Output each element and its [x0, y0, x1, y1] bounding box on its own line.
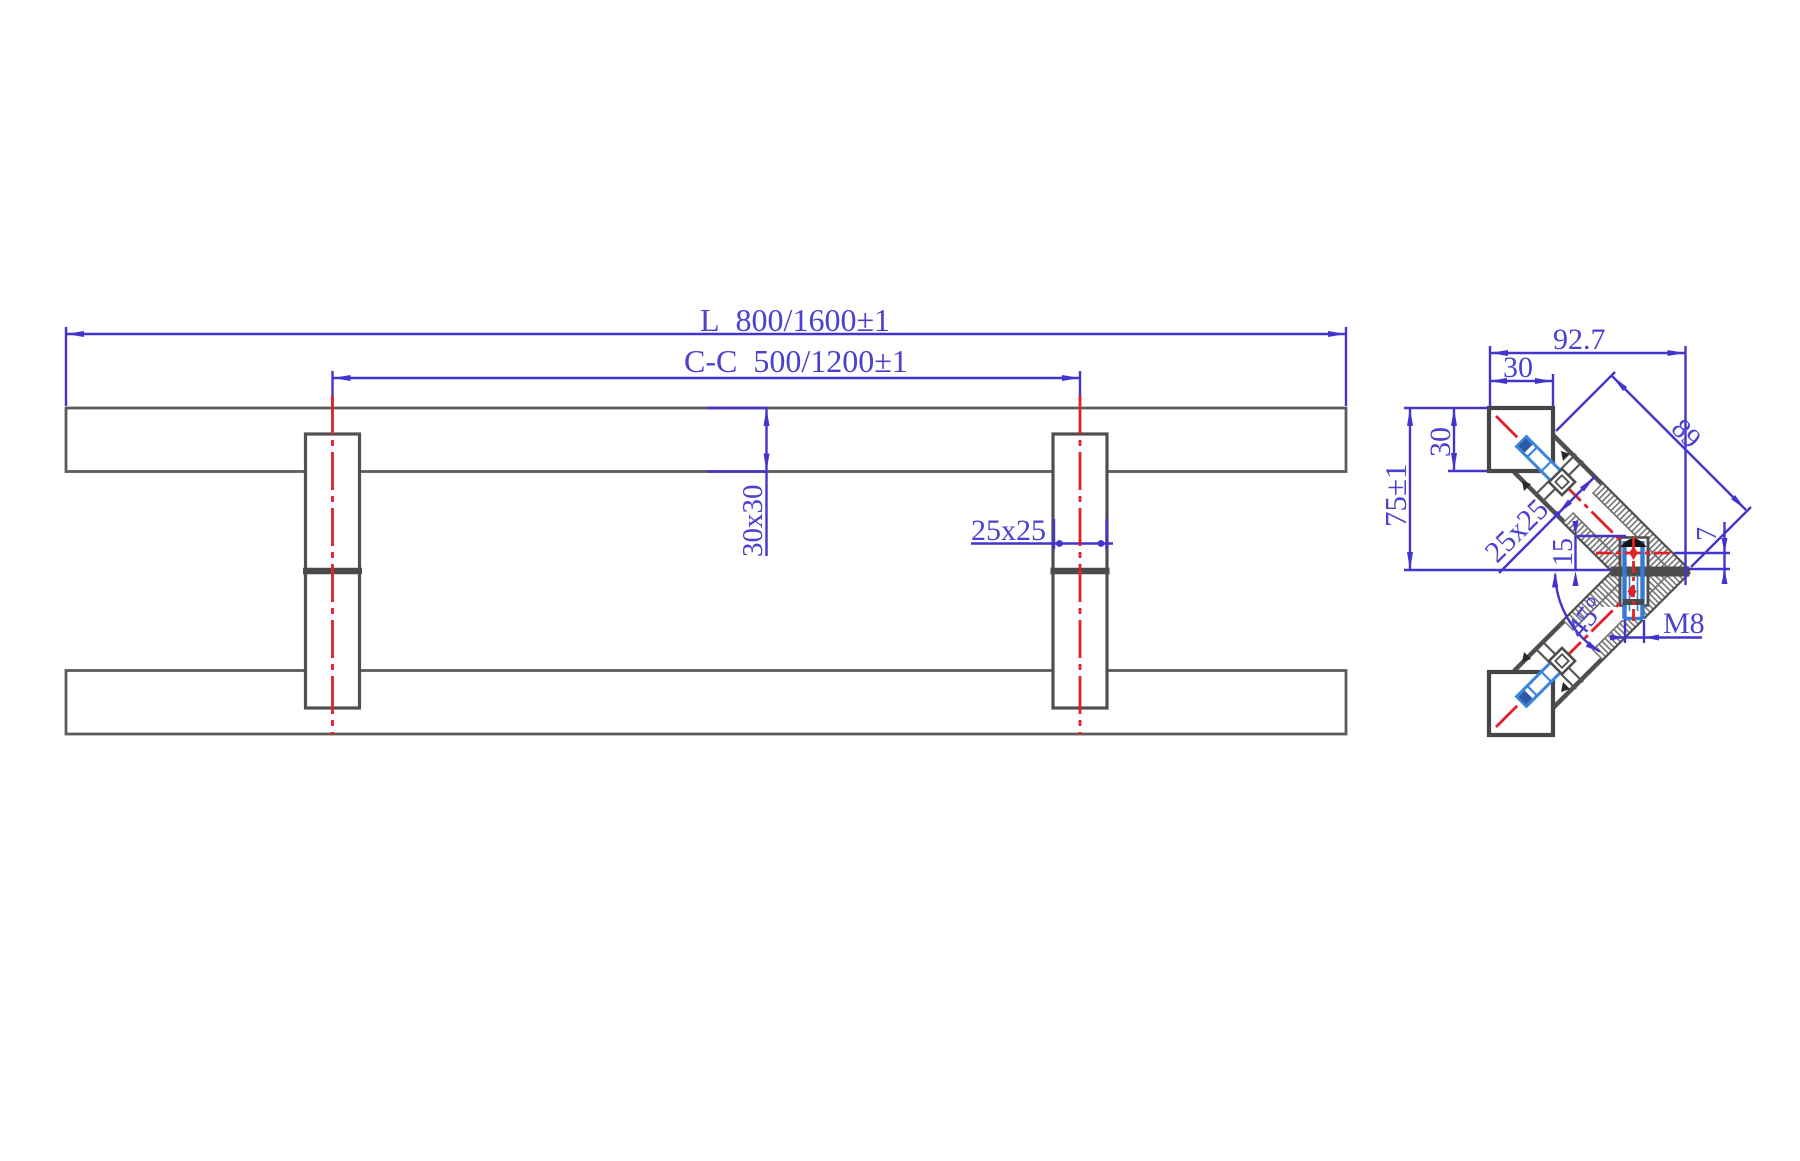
dimension 89 (arm length, 45°)	[1556, 372, 1751, 567]
red crosshair at elbow bolt	[1596, 552, 1673, 555]
dimension 30 (top width of cap)	[1489, 351, 1553, 406]
post 2 (25x25)	[1053, 434, 1107, 708]
dimension 75±1	[1378, 408, 1611, 570]
dimension C-C 500/1200±1	[333, 343, 1081, 406]
svg-text:30x30: 30x30	[737, 485, 769, 558]
svg-text:15: 15	[1548, 538, 1579, 566]
dimension 25x25 (arm tube, aligned 45°)	[1479, 477, 1595, 574]
elbow bolt outline (M8, blue)	[1624, 541, 1643, 619]
bottom bar (mounting tube 30x30)	[66, 671, 1346, 735]
post 1 (25x25)	[306, 434, 360, 708]
svg-text:92.7: 92.7	[1553, 323, 1606, 356]
red centreline of arm	[1496, 416, 1642, 562]
post 1 joint line	[303, 568, 362, 575]
svg-text:30: 30	[1424, 427, 1457, 457]
end cap square 30x30	[1489, 408, 1553, 471]
dimension 30x30 (bar height)	[707, 408, 770, 557]
elbow bolt body (white)	[1623, 540, 1645, 620]
svg-text:L 800/1600±1: L 800/1600±1	[700, 302, 890, 338]
dimension 25x25 (post width)	[971, 514, 1113, 549]
bolt head cap (black)	[1621, 539, 1647, 548]
bolt pocket	[1619, 537, 1649, 572]
svg-text:25x25: 25x25	[971, 514, 1046, 547]
upper arm assembly (mirrored below)	[1489, 408, 1690, 572]
centerline post 2	[1079, 396, 1082, 735]
arm tube inner edge	[1514, 472, 1614, 572]
post 2 joint line	[1051, 568, 1110, 575]
dimension 7 (tip offset)	[1674, 522, 1730, 584]
svg-text:7: 7	[1692, 527, 1723, 541]
nut plate diamond	[1549, 469, 1575, 495]
dimension 92.7	[1490, 323, 1686, 585]
dimension M8 (leader)	[1610, 607, 1705, 643]
dimension 30 (left height of cap)	[1424, 408, 1487, 471]
hatch inner boundary lines	[1593, 493, 1672, 572]
collar joint lines across tube	[1537, 454, 1576, 493]
wall hatch lower	[1564, 513, 1632, 572]
svg-text:30: 30	[1503, 351, 1533, 384]
dimension 15 (bolt depth)	[1548, 521, 1626, 586]
wall hatch upper	[1593, 484, 1690, 572]
svg-text:C-C 500/1200±1: C-C 500/1200±1	[684, 343, 908, 379]
weld mark lower edge	[1522, 481, 1531, 491]
top bar (grip tube 30x30)	[66, 408, 1346, 472]
dimension 45° (angle arc)	[1552, 572, 1612, 653]
dimension L 800/1600±1	[66, 302, 1346, 406]
svg-text:75±1: 75±1	[1378, 463, 1413, 527]
arm tube outer edge	[1553, 435, 1690, 572]
screw along arm (blue)	[1517, 437, 1562, 482]
svg-text:M8: M8	[1663, 607, 1705, 640]
centerline post 1	[331, 396, 334, 735]
elbow material hatch	[1578, 536, 1690, 572]
elbow mitre seam	[1611, 567, 1690, 577]
weld mark upper edge	[1561, 451, 1570, 461]
bolt nut line	[1623, 599, 1644, 605]
